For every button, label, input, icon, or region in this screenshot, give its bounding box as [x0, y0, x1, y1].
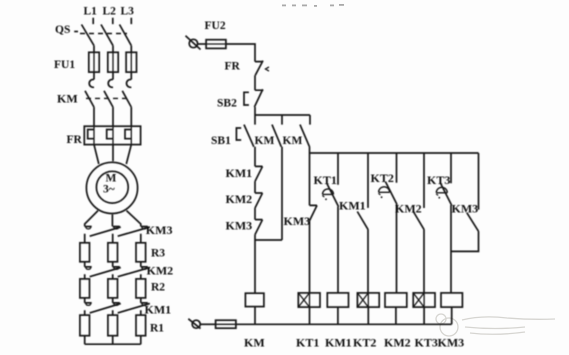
- svg-text:KT1: KT1: [314, 173, 337, 187]
- svg-text:L3: L3: [121, 6, 135, 18]
- svg-text:L1: L1: [84, 6, 98, 18]
- svg-text:KM1: KM1: [325, 336, 352, 350]
- svg-text:KM3: KM3: [438, 336, 465, 350]
- svg-text:R1: R1: [150, 323, 164, 335]
- svg-text:KM2: KM2: [226, 192, 253, 206]
- svg-text:KM2: KM2: [147, 264, 174, 278]
- svg-text:KM: KM: [244, 336, 265, 350]
- svg-text:FR: FR: [67, 134, 83, 146]
- svg-text:KM3: KM3: [284, 214, 311, 228]
- svg-text:3~: 3~: [103, 184, 115, 196]
- svg-text:KM3: KM3: [452, 202, 479, 216]
- svg-text:R2: R2: [151, 282, 165, 294]
- svg-text:KM2: KM2: [395, 202, 422, 216]
- svg-text:KM3: KM3: [226, 219, 253, 233]
- svg-text:KM2: KM2: [384, 336, 411, 350]
- svg-text:FU1: FU1: [54, 59, 75, 71]
- svg-text:KT2: KT2: [353, 336, 376, 350]
- svg-text:SB1: SB1: [211, 135, 231, 147]
- svg-text:FU2: FU2: [205, 20, 226, 32]
- svg-text:KM: KM: [57, 92, 78, 106]
- svg-text:KT1: KT1: [296, 336, 319, 350]
- svg-text:L2: L2: [103, 6, 117, 18]
- svg-text:R3: R3: [151, 248, 165, 260]
- svg-text:KT3: KT3: [415, 336, 438, 350]
- svg-text:KM: KM: [283, 135, 303, 147]
- svg-text:KM: KM: [255, 135, 275, 147]
- svg-text:KM1: KM1: [226, 166, 253, 180]
- svg-text:KM1: KM1: [145, 303, 172, 317]
- svg-text:KM1: KM1: [339, 199, 366, 213]
- svg-text:KM3: KM3: [146, 223, 173, 237]
- svg-text:QS: QS: [55, 24, 70, 36]
- svg-text:SB2: SB2: [217, 98, 237, 110]
- svg-text:KT3: KT3: [427, 173, 450, 187]
- svg-text:KT2: KT2: [371, 171, 394, 185]
- svg-text:FR: FR: [225, 61, 241, 73]
